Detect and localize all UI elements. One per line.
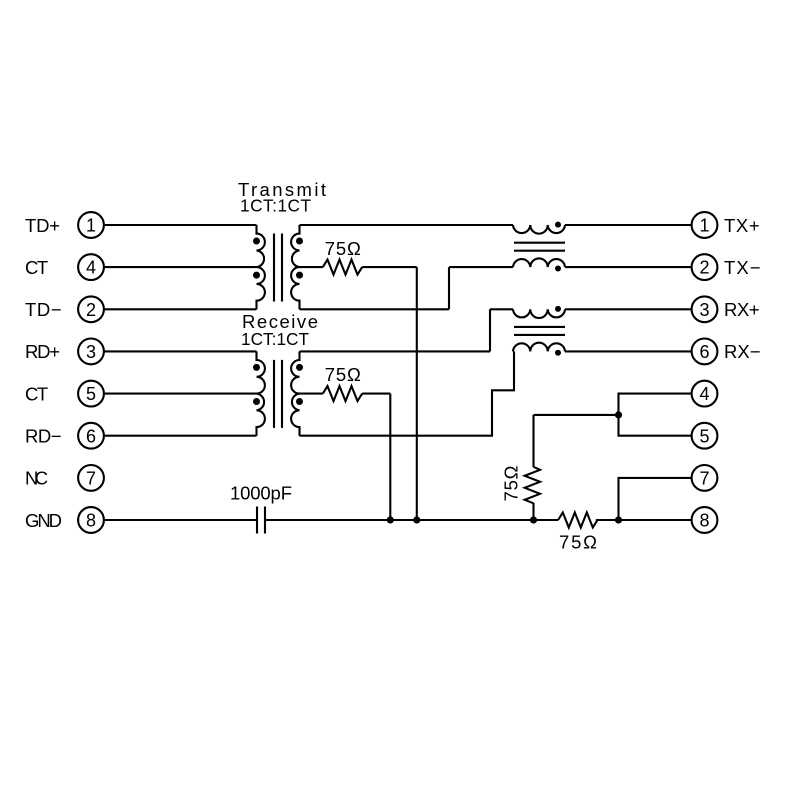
wire T2 secondary bottom step to choke L2 bottom [300,351,515,435]
svg-text:1000pF: 1000pF [230,483,292,504]
wire T2 secondary tap to R2 [300,393,323,395]
wire T1 secondary top to choke L1 top [300,224,514,226]
transformer T1 core [274,234,282,302]
wire R2 to ground rail drop [362,393,390,395]
wire P8 GND to capacitor C1 [104,519,257,521]
net label TX− [724,257,761,278]
pin P4 left (CT) [78,254,104,280]
svg-text:TX−: TX− [724,257,761,278]
pin J3 right [692,296,718,322]
net label TD+ [25,215,60,236]
choke L1 top winding [513,225,565,234]
svg-text:6: 6 [86,426,96,446]
pin J7 right [692,465,718,491]
svg-text:75Ω: 75Ω [325,364,361,385]
net label RD+ [25,341,60,362]
wire pin J7 to ground rail [619,478,692,520]
wire R4 to pin J8 [596,519,692,521]
transformer T1 primary winding [257,225,265,309]
label R1 75R [325,238,361,259]
svg-text:2: 2 [86,300,96,320]
svg-text:4: 4 [699,384,709,404]
transformer T2 primary winding [257,351,265,435]
wire node A to pin J5 [619,415,692,436]
wire T1 secondary tap to R1 [300,266,323,268]
svg-text:TD−: TD− [25,299,62,320]
svg-text:TX+: TX+ [724,215,760,236]
svg-text:RX+: RX+ [724,299,760,320]
svg-text:75Ω: 75Ω [325,238,361,259]
pin P7 left (NC) [78,465,104,491]
svg-text:4: 4 [86,258,96,278]
net label RX+ [724,299,760,320]
transformer T1 primary dot (top) [253,238,260,245]
label C1 1000pF [230,483,292,504]
wire choke L1 bottom to pin J2 [565,266,692,268]
wire riser to choke L1 bottom [449,266,513,268]
choke L1 core [514,243,565,251]
pin J6 right [692,339,718,365]
svg-text:8: 8 [699,511,709,531]
wire ground rail to R4 [534,519,559,521]
wire P4 CT to T1 primary tap [104,266,257,268]
choke L2 bottom dot [555,350,561,356]
pin P1 left (TD+) [78,212,104,238]
pin P3 left (RD+) [78,339,104,365]
net label RD− [25,426,62,447]
wire R1 to node rail TXCT [362,266,417,268]
svg-text:6: 6 [699,342,709,362]
wire L1 bottom riser [448,267,450,309]
transformer T1 secondary dot (top) [296,238,303,245]
wire choke L2 bottom to pin J6 [565,350,692,352]
transformer T2 secondary winding [291,351,299,435]
net label RX− [724,341,761,362]
transformer T1 secondary dot (lower half) [296,272,303,279]
label 1CT:1CT (T1) [240,196,312,216]
svg-text:RD−: RD− [25,426,62,447]
choke L2 top dot [555,306,561,312]
svg-text:NC: NC [25,468,48,489]
junction TXCT rail / ground rail [413,516,420,523]
label R3 75R (rotated) [501,465,522,501]
wire P1 TD+ to T1 primary top [104,224,257,226]
svg-text:1CT:1CT: 1CT:1CT [240,196,312,216]
label R4 75R [559,532,597,553]
wire T1 secondary bottom to L1 bottom riser [300,308,450,310]
wire P5 CT to T2 primary tap [104,393,257,395]
net label TD− [25,299,62,320]
choke L2 bottom winding [513,343,565,352]
junction R3 / ground rail [530,516,537,523]
wire R2 drop vertical [389,394,391,520]
pin P6 left (RD−) [78,423,104,449]
svg-text:CT: CT [25,257,48,278]
choke L1 bottom winding [513,258,565,267]
choke L2 top winding [513,309,565,318]
svg-text:7: 7 [699,469,709,489]
transformer T2 secondary dot (lower half) [296,398,303,405]
resistor R4 75R [558,513,597,528]
svg-text:5: 5 [699,426,709,446]
svg-text:1: 1 [699,216,709,236]
junction J7 riser / ground rail [615,516,622,523]
pin J5 right [692,423,718,449]
svg-text:75Ω: 75Ω [559,532,597,553]
net label CT [25,257,48,278]
svg-text:5: 5 [86,384,96,404]
wire node A to pin J4 [619,394,692,415]
label Receive [242,311,318,332]
label R2 75R [325,364,361,385]
label Transmit [238,179,326,200]
pin P2 left (TD−) [78,296,104,322]
net label GND [25,510,62,531]
choke L1 top dot [555,222,561,228]
svg-text:75Ω: 75Ω [501,465,522,501]
pin J2 right [692,254,718,280]
label 1CT:1CT (T2) [241,329,310,349]
wire L2 top riser [489,309,491,351]
transformer T1 primary dot (lower half) [253,272,260,279]
transformer T1 secondary winding [291,225,299,309]
svg-text:CT: CT [25,383,48,404]
svg-text:GND: GND [25,510,62,531]
transformer T2 core [274,360,282,428]
wire T2 secondary top to L2 riser [300,350,491,352]
wire R3 leads [532,415,534,520]
svg-text:3: 3 [86,342,96,362]
pin J1 right [692,212,718,238]
svg-text:RX−: RX− [724,341,761,362]
pin J4 right [692,381,718,407]
wire choke L2 top to pin J3 [565,308,692,310]
capacitor C1 plates [257,507,265,534]
choke L1 bottom dot [555,266,561,272]
junction node A (J4/J5 tie) [615,411,622,418]
net label CT [25,383,48,404]
wire choke L1 top to pin J1 [565,224,692,226]
svg-text:RD+: RD+ [25,341,60,362]
pin J8 right [692,507,718,533]
resistor R3 75R vertical [525,467,540,504]
transformer T2 secondary dot (top) [296,364,303,371]
svg-text:2: 2 [699,258,709,278]
pin P8 left (GND) [78,507,104,533]
svg-text:TD+: TD+ [25,215,60,236]
transformer T2 primary dot (top) [253,364,260,371]
wire node TXCT vertical rail [416,267,418,520]
net label TX+ [724,215,760,236]
wire riser to choke L2 top [490,308,513,310]
transformer T2 primary dot (lower half) [253,398,260,405]
wire capacitor C1 to ground rail [265,519,558,521]
svg-text:8: 8 [86,511,96,531]
resistor R2 75R [323,386,362,401]
net label NC [25,468,48,489]
pin P5 left (CT) [78,381,104,407]
wire P2 TD- to T1 primary bottom [104,308,257,310]
junction R2 drop / ground rail [387,516,394,523]
svg-text:1: 1 [86,216,96,236]
wire P3 RD+ to T2 primary top [104,350,257,352]
wire P6 RD- to T2 primary bottom [104,435,257,437]
svg-text:3: 3 [699,300,709,320]
svg-text:1CT:1CT: 1CT:1CT [241,329,310,349]
wire R3 top to node A [534,414,619,416]
svg-text:7: 7 [86,469,96,489]
resistor R1 75R [323,260,362,275]
choke L2 core [514,327,565,335]
